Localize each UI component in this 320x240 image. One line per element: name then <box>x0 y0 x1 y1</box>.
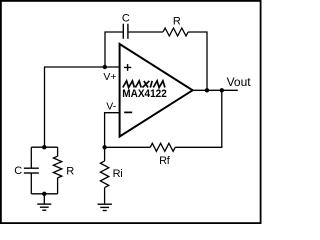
svg-text:Vout: Vout <box>227 75 252 89</box>
svg-text:MAX4122: MAX4122 <box>122 88 167 100</box>
wire tank bottom to ground <box>43 194 45 204</box>
capacitor C (top) <box>123 24 128 39</box>
wire V+ input <box>45 67 121 147</box>
node tank bottom junction dot <box>42 192 46 196</box>
svg-text:R: R <box>66 166 74 178</box>
wire tank right branch upper <box>57 147 59 156</box>
ground (Ri) <box>98 204 112 210</box>
wire Ri to ground <box>104 188 106 204</box>
wire top feedback from V+ corner to capacitor C <box>105 32 123 67</box>
wire output to Vout <box>193 89 238 91</box>
svg-text:C: C <box>14 165 22 177</box>
op-amp U1 MAX4122 <box>120 44 193 137</box>
wire tank left branch upper <box>30 147 32 168</box>
capacitor C (tank) <box>24 168 39 173</box>
wire tank right branch lower <box>57 178 59 194</box>
wire V- input <box>105 113 121 148</box>
svg-text:Ri: Ri <box>113 168 123 180</box>
wire Vout node down to Rf <box>175 90 222 147</box>
node tank top junction dot <box>42 145 46 149</box>
resistor R (top) <box>163 28 188 36</box>
svg-text:R: R <box>173 15 181 27</box>
MAXIM logo <box>123 81 165 88</box>
wire resistor R down to output node <box>188 32 207 90</box>
resistor Ri <box>100 161 108 188</box>
pin + (non-inverting) <box>124 64 131 71</box>
ground (tank) <box>37 204 51 210</box>
node V+ junction dot <box>103 65 107 69</box>
pin - (inverting) <box>124 111 132 113</box>
svg-text:V+: V+ <box>103 71 116 83</box>
resistor R (tank) <box>53 156 61 178</box>
wire V- node down to Ri <box>104 147 106 161</box>
node V-/Rf/Ri junction dot <box>102 145 106 149</box>
node Vout junction dot <box>220 88 224 92</box>
svg-text:C: C <box>122 13 130 25</box>
wire Rf to V- node <box>105 146 151 148</box>
wire tank loop top <box>31 146 57 148</box>
wire capacitor C to resistor R <box>128 31 163 33</box>
border frame <box>1 1 261 223</box>
resistor Rf <box>150 143 175 151</box>
node output junction dot (from top R) <box>205 88 209 92</box>
wire tank loop bottom <box>31 193 57 195</box>
svg-text:Rf: Rf <box>159 155 171 167</box>
svg-text:V-: V- <box>106 100 116 112</box>
wire tank left branch lower <box>30 173 32 194</box>
